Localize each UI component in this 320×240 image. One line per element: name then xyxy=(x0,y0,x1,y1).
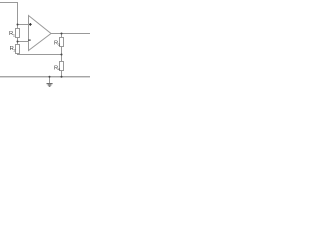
wire top rail xyxy=(0,3,18,29)
resistor R2 xyxy=(16,45,20,54)
wire - input xyxy=(18,41,29,43)
svg-text:3: 3 xyxy=(58,43,60,47)
label R3 xyxy=(54,41,60,47)
svg-text:2: 2 xyxy=(14,48,16,52)
op-amp - marker xyxy=(28,39,31,41)
wire node to R4 xyxy=(61,55,63,62)
wire ground stem xyxy=(49,77,51,83)
ground xyxy=(47,84,53,87)
wire R3 bottom lead xyxy=(61,47,63,55)
resistor R3 xyxy=(60,38,64,47)
wire R4 to bottom rail xyxy=(61,71,63,77)
label R1 xyxy=(9,31,15,37)
wire R3 top lead xyxy=(61,34,63,38)
wire + input xyxy=(18,24,29,26)
op-amp + marker xyxy=(28,23,32,40)
resistor R1 xyxy=(16,29,20,38)
label R2 xyxy=(10,46,16,52)
wire R2 bottom to node xyxy=(18,54,62,55)
node junction dots xyxy=(17,24,63,78)
resistor R4 xyxy=(60,62,64,71)
svg-text:1: 1 xyxy=(13,33,15,37)
label R4 xyxy=(54,65,60,71)
op-amp U1 xyxy=(29,16,52,51)
wire R1 to R2 xyxy=(17,38,19,45)
wire output xyxy=(51,33,90,35)
wire bottom rail xyxy=(0,76,90,78)
svg-text:4: 4 xyxy=(58,68,60,72)
